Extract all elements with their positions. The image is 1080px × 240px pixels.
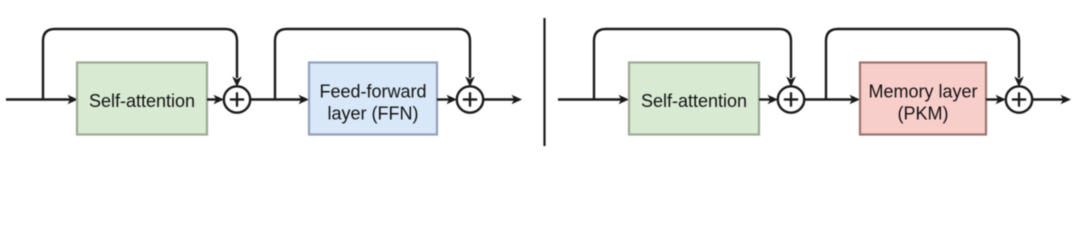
- svg-text:Self-attention: Self-attention: [641, 91, 747, 111]
- box: Self-attention (right, green): [629, 63, 759, 135]
- adder 1 (circle with plus): [224, 86, 250, 112]
- arrowhead down into adder 4: [1014, 77, 1024, 88]
- arrowhead into adder 2 (left): [447, 95, 458, 105]
- svg-text:Feed-forward: Feed-forward: [319, 82, 426, 102]
- wire: adder 3 to memory box: [804, 98, 854, 100]
- arrowhead left output: [512, 95, 523, 105]
- box: Memory layer PKM (pink): [860, 63, 986, 135]
- wire: self-attention to adder 3: [759, 98, 772, 100]
- arrowhead right output: [1061, 95, 1072, 105]
- wire: left input line: [6, 98, 72, 100]
- arrowhead into adder 4 (left): [996, 95, 1007, 105]
- arrowhead into left self-attention box: [68, 95, 79, 105]
- arrowhead into adder 3 (left): [768, 95, 779, 105]
- wire: right input line: [558, 98, 623, 100]
- wire: right residual skip 2 (around memory layer): [826, 29, 1019, 99]
- box: Self-attention (left, green): [77, 63, 207, 135]
- wire: memory box to adder 4: [986, 98, 1000, 100]
- divider line: [543, 18, 545, 146]
- arrowhead into right self-attention box: [619, 95, 630, 105]
- wire: left residual skip 1 (around self-attention): [43, 29, 237, 99]
- svg-text:(PKM): (PKM): [898, 104, 949, 124]
- box: Feed-forward layer FFN (blue): [309, 63, 437, 135]
- arrowhead into FFN box: [299, 95, 310, 105]
- svg-text:Memory layer: Memory layer: [868, 82, 977, 102]
- arrowhead into memory box: [850, 95, 861, 105]
- arrowhead into adder 1 (left): [214, 95, 225, 105]
- arrowhead down into adder 2: [465, 77, 475, 88]
- svg-text:Self-attention: Self-attention: [89, 91, 195, 111]
- adder 3 (circle with plus): [778, 86, 804, 112]
- wire: left output: [483, 98, 516, 100]
- wire: FFN box to adder 2: [437, 98, 451, 100]
- adder 4 (circle with plus): [1006, 86, 1032, 112]
- wire: right residual skip 1 (around self-attention): [594, 29, 791, 99]
- svg-text:layer (FFN): layer (FFN): [328, 104, 419, 124]
- adder 2 (circle with plus): [457, 86, 483, 112]
- arrowhead down into adder 3: [786, 77, 796, 88]
- wire: left residual skip 2 (around FFN): [275, 29, 470, 99]
- wire: adder 1 to FFN box: [250, 98, 303, 100]
- wire: right output: [1032, 98, 1065, 100]
- arrowhead down into adder 1: [232, 77, 242, 88]
- wire: self-attention to adder 1: [207, 98, 218, 100]
